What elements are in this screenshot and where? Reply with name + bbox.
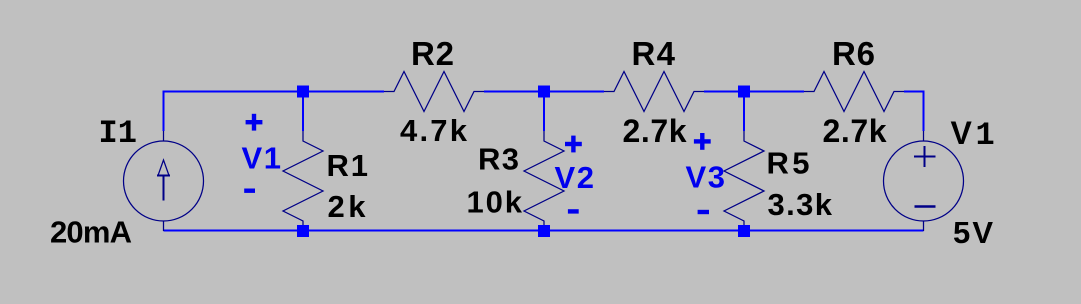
svg-text:R3: R3 — [478, 142, 519, 177]
svg-text:3.3k: 3.3k — [768, 187, 833, 222]
svg-text:4.7k: 4.7k — [400, 113, 468, 148]
svg-text:V3: V3 — [686, 160, 726, 195]
svg-text:R1: R1 — [327, 148, 369, 183]
svg-text:R6: R6 — [832, 35, 875, 72]
svg-text:2.7k: 2.7k — [623, 113, 687, 149]
svg-text:R4: R4 — [632, 35, 676, 72]
svg-text:R2: R2 — [411, 35, 454, 72]
svg-text:V2: V2 — [555, 160, 595, 195]
svg-text:2k: 2k — [328, 189, 367, 224]
svg-text:V1: V1 — [242, 141, 282, 176]
svg-text:5V: 5V — [953, 215, 993, 250]
svg-text:10k: 10k — [467, 185, 523, 220]
svg-text:2.7k: 2.7k — [823, 113, 887, 149]
svg-text:V: V — [951, 115, 973, 151]
svg-text:1: 1 — [976, 117, 995, 154]
svg-text:I1: I1 — [99, 115, 137, 152]
svg-text:20mA: 20mA — [50, 215, 132, 250]
svg-text:R5: R5 — [767, 146, 810, 181]
